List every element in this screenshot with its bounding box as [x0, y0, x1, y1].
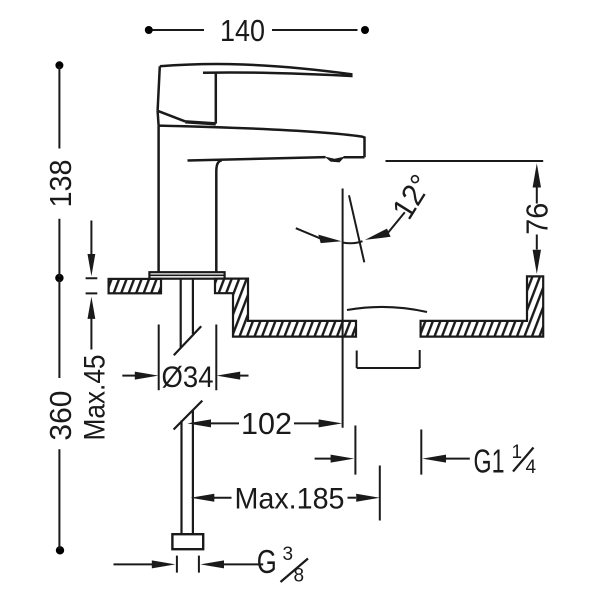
svg-text:76: 76	[520, 203, 555, 235]
svg-text:Max.185: Max.185	[235, 482, 345, 515]
svg-text:140: 140	[220, 13, 265, 48]
svg-text:Max.45: Max.45	[79, 355, 112, 441]
svg-text:G: G	[257, 543, 277, 580]
svg-text:4: 4	[526, 457, 537, 478]
svg-text:1: 1	[512, 442, 523, 463]
svg-text:102: 102	[241, 406, 292, 441]
svg-text:G1: G1	[474, 443, 505, 480]
svg-text:Ø34: Ø34	[162, 361, 214, 394]
svg-text:360: 360	[43, 391, 78, 441]
svg-text:3: 3	[283, 544, 294, 565]
svg-text:138: 138	[43, 160, 78, 208]
svg-text:8: 8	[294, 566, 305, 587]
